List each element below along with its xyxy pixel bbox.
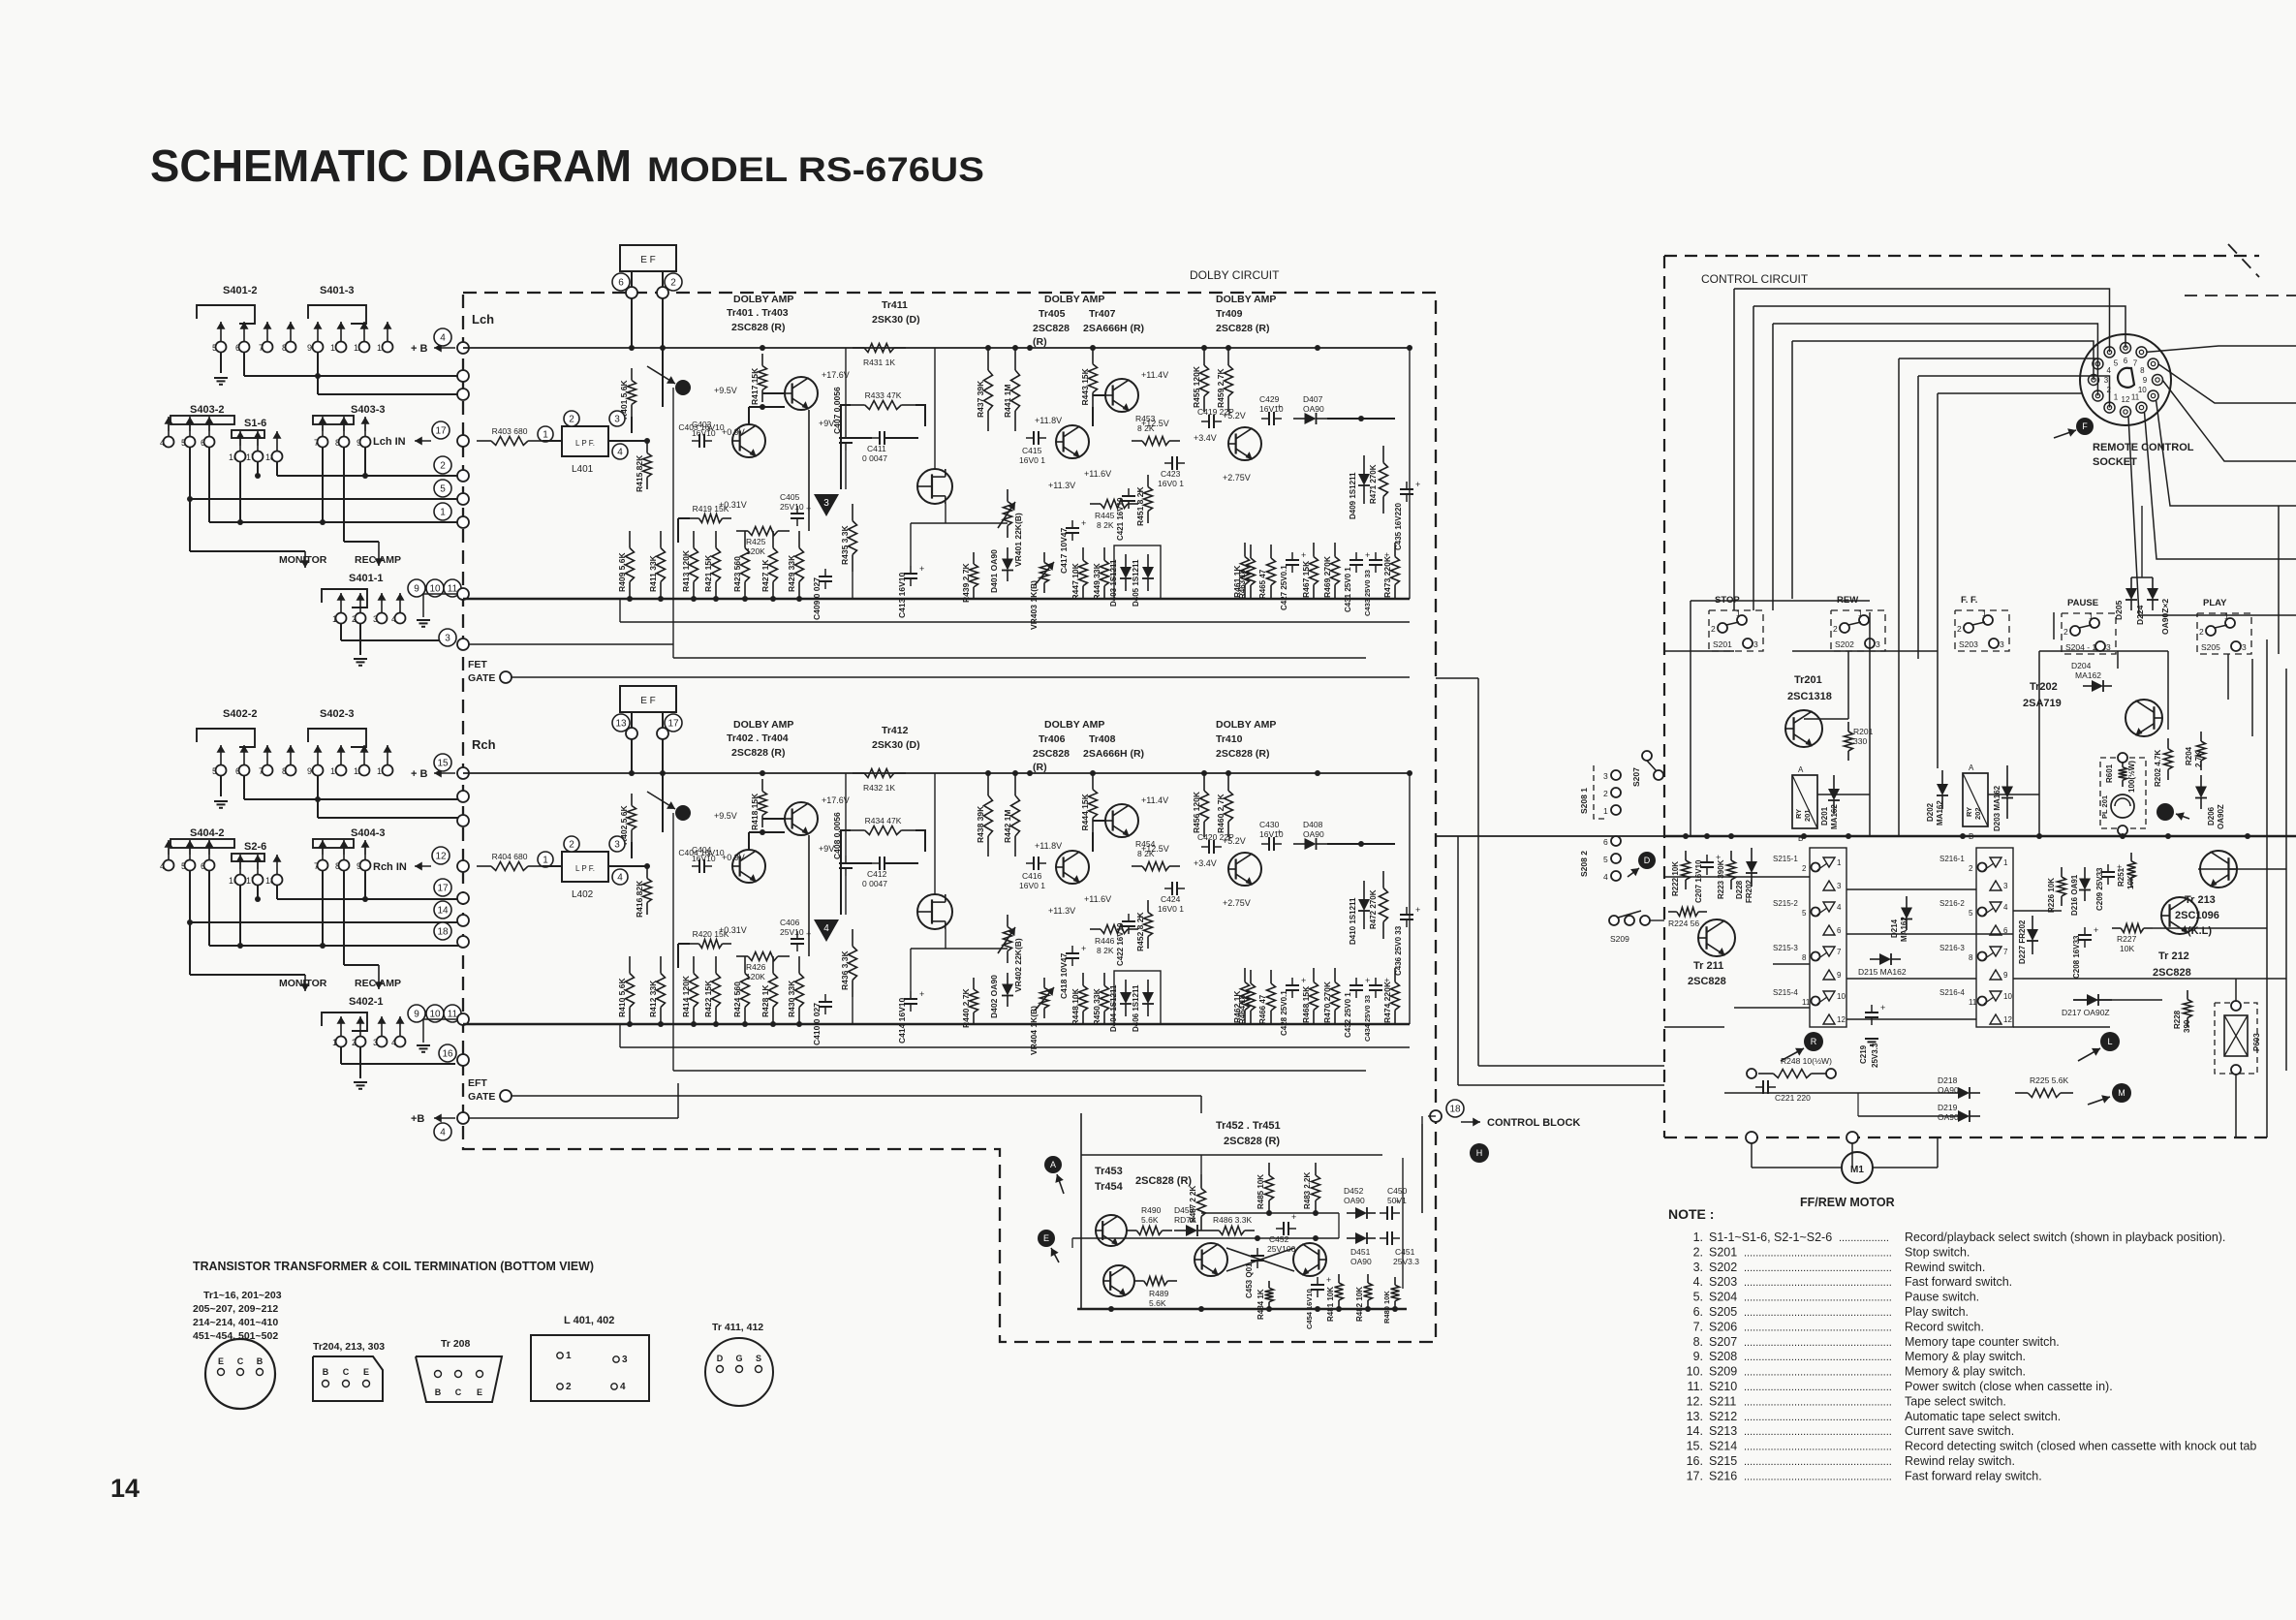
capacitor C404: [698, 859, 700, 873]
svg-text:C431 25V0 1: C431 25V0 1: [1344, 567, 1352, 612]
svg-text:D219: D219: [1938, 1103, 1958, 1112]
svg-text:+11.3V: +11.3V: [1048, 481, 1075, 490]
svg-text:8.: 8.: [1693, 1335, 1703, 1349]
legend TO package ECB: [205, 1339, 275, 1409]
wire: [934, 773, 936, 894]
svg-text:4: 4: [1603, 872, 1608, 882]
svg-text:1: 1: [2003, 858, 2008, 867]
wire: [512, 1095, 1201, 1097]
svg-text:9: 9: [414, 584, 419, 595]
transistor Tr408: [1105, 804, 1138, 837]
resistor R420: [690, 943, 698, 945]
resistor R434: [851, 829, 865, 831]
diode D205: [2130, 577, 2132, 588]
resistor R227: [2112, 927, 2121, 929]
svg-text:D: D: [717, 1354, 724, 1363]
svg-text:R419 15K: R419 15K: [693, 504, 729, 514]
wire: [543, 865, 562, 867]
ground: [220, 800, 222, 802]
diode D219: [1947, 1115, 1958, 1117]
capacitor C427: [1286, 559, 1299, 561]
svg-text:RY: RY: [1794, 809, 1803, 819]
transistor Tr403: [785, 377, 818, 410]
black node H: [1470, 1143, 1489, 1163]
svg-text:S215-3: S215-3: [1773, 944, 1798, 952]
wire: [608, 865, 647, 867]
capacitor C414: [904, 998, 917, 1000]
svg-text:S209: S209: [1610, 934, 1629, 944]
motor M1: [1746, 1132, 1757, 1143]
wire left stub: [462, 772, 464, 774]
svg-text:+: +: [1137, 486, 1142, 496]
svg-text:Lch IN: Lch IN: [373, 436, 406, 448]
wire: [359, 623, 361, 655]
svg-text:R423 560: R423 560: [732, 556, 742, 592]
capacitor C418: [1066, 952, 1079, 954]
svg-text:9: 9: [2143, 376, 2148, 385]
black node E: [1038, 1230, 1055, 1247]
ground: [359, 1081, 361, 1083]
svg-text:S401-1: S401-1: [349, 573, 383, 584]
svg-text:4: 4: [617, 448, 623, 458]
svg-text:2: 2: [1802, 864, 1807, 873]
wire: [631, 712, 633, 728]
svg-text:S210: S210: [1709, 1380, 1737, 1393]
resistor R429: [798, 531, 800, 548]
svg-text:18: 18: [1449, 1105, 1461, 1115]
svg-text:D217 OA90Z: D217 OA90Z: [2062, 1008, 2110, 1017]
wire: [631, 271, 633, 287]
svg-text:R226 10K: R226 10K: [2047, 878, 2056, 913]
svg-text:R434 47K: R434 47K: [865, 816, 902, 826]
svg-text:R202 4.7K: R202 4.7K: [2154, 750, 2162, 787]
svg-text:1.: 1.: [1693, 1231, 1703, 1244]
wire y491: [276, 462, 278, 476]
svg-text:B: B: [257, 1356, 264, 1366]
svg-text:+: +: [1081, 944, 1086, 953]
resistor R474: [1394, 968, 1396, 982]
svg-text:2SA719: 2SA719: [2023, 698, 2062, 709]
wire dashed stub: [2185, 295, 2296, 296]
node 15: [434, 754, 451, 771]
svg-text:Power switch (close when casse: Power switch (close when cassette in).: [1905, 1380, 2113, 1393]
svg-text:R469 270K: R469 270K: [1322, 555, 1332, 598]
svg-text:16V10: 16V10: [692, 854, 716, 863]
svg-text:9: 9: [307, 766, 312, 776]
svg-text:C219: C219: [1859, 1044, 1868, 1064]
svg-text:R444 15K: R444 15K: [1080, 793, 1090, 830]
resistor R440: [973, 978, 975, 989]
wire: [1724, 1092, 1947, 1094]
svg-text:+2.75V: +2.75V: [1223, 898, 1251, 908]
svg-text:DOLBY AMP: DOLBY AMP: [1216, 719, 1276, 731]
svg-text:1: 1: [1982, 608, 1987, 618]
svg-text:R489: R489: [1149, 1289, 1169, 1298]
wire: [359, 1046, 361, 1078]
resistor R490: [1127, 1230, 1136, 1231]
svg-text:R456 120K: R456 120K: [1192, 791, 1201, 833]
wire left stub: [462, 347, 464, 349]
svg-text:+: +: [1137, 912, 1142, 921]
wire: [220, 352, 222, 373]
wire: [340, 623, 342, 640]
svg-text:7: 7: [2133, 359, 2138, 368]
svg-text:DOLBY AMP: DOLBY AMP: [733, 294, 793, 305]
wire: [662, 739, 664, 832]
transistor Tr409: [1228, 427, 1261, 460]
svg-text:R439 2.7K: R439 2.7K: [961, 563, 971, 603]
svg-text:2: 2: [569, 415, 574, 425]
svg-text:S403-3: S403-3: [351, 404, 385, 416]
svg-text:C406: C406: [780, 918, 800, 927]
wire: [841, 830, 851, 915]
svg-text:R424 560: R424 560: [732, 981, 742, 1017]
resistor R486: [1209, 1230, 1219, 1231]
wire: [2131, 576, 2153, 578]
svg-text:+9.5V: +9.5V: [714, 386, 737, 395]
resistor R456: [1203, 775, 1205, 791]
svg-text:C422 16V10: C422 16V10: [1116, 922, 1125, 966]
resistor R472: [1382, 871, 1384, 888]
resistor R489: [1134, 1280, 1144, 1282]
low pass filter L402: [562, 852, 608, 882]
svg-text:17: 17: [435, 426, 447, 437]
black node M: [2112, 1083, 2131, 1103]
capacitor C432: [1350, 984, 1363, 986]
svg-text:Rewind switch.: Rewind switch.: [1905, 1261, 1985, 1274]
svg-text:3: 3: [1876, 639, 1880, 649]
wire: [910, 523, 912, 566]
svg-text:D410 1S1211: D410 1S1211: [1349, 897, 1357, 945]
svg-text:S203: S203: [1959, 639, 1978, 649]
wire: [462, 1024, 464, 1028]
svg-text:R471 270K: R471 270K: [1369, 464, 1378, 504]
svg-text:2SC828 (R): 2SC828 (R): [731, 747, 785, 759]
svg-text:+11.4V: +11.4V: [1141, 370, 1168, 380]
svg-text:25V100: 25V100: [1267, 1244, 1296, 1254]
svg-text:+3.4V: +3.4V: [1194, 858, 1217, 868]
wire: [841, 862, 872, 864]
svg-text:R404 680: R404 680: [492, 852, 528, 861]
wire y539: [208, 448, 210, 522]
svg-text:..............................: ........................................…: [1744, 1396, 1892, 1408]
resistor R464: [1250, 970, 1252, 983]
svg-text:Tr407: Tr407: [1089, 308, 1116, 320]
svg-text:..............................: ........................................…: [1744, 1277, 1892, 1289]
svg-text:F. F.: F. F.: [1961, 595, 1977, 606]
svg-text:SCHEMATIC DIAGRAM: SCHEMATIC DIAGRAM: [150, 140, 632, 191]
resistor R403: [477, 440, 491, 442]
svg-text:3: 3: [2242, 642, 2247, 652]
svg-text:MA162: MA162: [1830, 804, 1839, 829]
svg-text:S208 1: S208 1: [1579, 788, 1589, 814]
capacitor C453: [1251, 1255, 1264, 1257]
wire vertical runs in control area: [1690, 601, 1691, 836]
ground: [1871, 1038, 1873, 1040]
capacitor C209: [2101, 871, 2115, 873]
wire: [678, 517, 690, 519]
resistor R423: [744, 531, 746, 548]
svg-text:1: 1: [2089, 611, 2094, 621]
svg-text:Automatic tape select switch.: Automatic tape select switch.: [1905, 1410, 2061, 1423]
capacitor C221: [1762, 1080, 1764, 1094]
svg-text:A: A: [1798, 765, 1804, 774]
svg-text:2SC828 (R): 2SC828 (R): [1216, 323, 1269, 334]
svg-text:Tr406: Tr406: [1039, 733, 1066, 745]
resistor R202: [2167, 738, 2169, 749]
wire main bus: [1664, 835, 2296, 838]
svg-text:11: 11: [1802, 998, 1811, 1007]
svg-text:2SA666H (R): 2SA666H (R): [1083, 323, 1144, 334]
svg-text:..............................: ........................................…: [1744, 1293, 1892, 1304]
svg-text:10: 10: [429, 1010, 441, 1020]
wire: [1092, 832, 1094, 852]
svg-text:17: 17: [437, 884, 449, 894]
svg-text:S213: S213: [1709, 1424, 1737, 1438]
wire: [1080, 1113, 1082, 1309]
svg-text:E: E: [218, 1356, 224, 1366]
low pass filter L401: [562, 426, 608, 456]
svg-text:C430: C430: [1259, 820, 1280, 829]
svg-text:L401: L401: [572, 464, 594, 475]
svg-text:3: 3: [823, 498, 829, 509]
svg-text:2SC828: 2SC828: [1033, 323, 1070, 334]
svg-text:Tr402 . Tr404: Tr402 . Tr404: [727, 732, 789, 744]
svg-text:S207: S207: [1631, 767, 1641, 787]
wire: [662, 298, 664, 407]
diode D406: [1147, 980, 1149, 992]
svg-text:1: 1: [543, 856, 548, 866]
svg-text:7: 7: [1837, 948, 1842, 956]
svg-text:11: 11: [2131, 392, 2140, 401]
svg-text:0 0047: 0 0047: [862, 879, 887, 888]
svg-text:3: 3: [445, 634, 450, 644]
svg-text:8 2K: 8 2K: [1137, 423, 1155, 433]
svg-text:..............................: ........................................…: [1744, 1367, 1892, 1379]
svg-text:Record/playback select switch: Record/playback select switch (shown in …: [1905, 1231, 2225, 1244]
wire: [662, 271, 664, 287]
svg-text:R465 47: R465 47: [1258, 569, 1267, 599]
diode D201: [1833, 775, 1835, 789]
svg-text:Tr409: Tr409: [1216, 308, 1243, 320]
svg-text:TRANSISTOR TRANSFORMER & COIL: TRANSISTOR TRANSFORMER & COIL TERMINATIO…: [193, 1259, 594, 1273]
svg-text:R467 15K: R467 15K: [1301, 560, 1311, 598]
resistor R416: [646, 866, 648, 879]
svg-text:R222 10K: R222 10K: [1671, 861, 1680, 896]
svg-text:D202: D202: [1926, 802, 1935, 822]
capacitor C433: [1369, 559, 1382, 561]
svg-text:..............................: ........................................…: [1744, 1426, 1892, 1438]
pcb test point triangle: [814, 919, 839, 942]
diode D215: [1870, 958, 1879, 960]
svg-text:+: +: [919, 564, 924, 574]
diode D409: [1363, 455, 1365, 474]
svg-text:1: 1: [566, 1351, 572, 1361]
svg-text:VR402 22K(B): VR402 22K(B): [1013, 938, 1023, 992]
svg-text:+: +: [1880, 1003, 1885, 1012]
wire socket right: [2147, 346, 2296, 352]
black node A: [675, 380, 691, 395]
svg-text:R411 33K: R411 33K: [648, 554, 658, 592]
svg-text:S215: S215: [1709, 1454, 1737, 1468]
ground stub: [423, 1018, 457, 1020]
svg-text:..............................: ........................................…: [1744, 1442, 1892, 1453]
svg-text:D228: D228: [1735, 880, 1744, 899]
wire y515: [189, 871, 191, 922]
svg-text:16V0 1: 16V0 1: [1019, 881, 1045, 890]
resistor R451: [1147, 475, 1149, 487]
svg-text:S1-6: S1-6: [244, 418, 266, 429]
svg-text:+B: +B: [411, 1113, 424, 1125]
wire: [608, 440, 647, 442]
ground: [359, 658, 361, 660]
wire: [1753, 306, 2125, 348]
svg-text:S1-1~S1-6, S2-1~S2-6: S1-1~S1-6, S2-1~S2-6: [1709, 1231, 1832, 1244]
svg-text:R453: R453: [1135, 414, 1156, 423]
svg-text:R484 1K: R484 1K: [1257, 1289, 1265, 1320]
svg-text:6: 6: [2124, 357, 2128, 365]
svg-text:Stop switch.: Stop switch.: [1905, 1245, 1970, 1259]
svg-text:3: 3: [1837, 882, 1842, 890]
svg-text:Tr 208: Tr 208: [441, 1338, 471, 1350]
svg-text:12: 12: [2122, 395, 2130, 404]
node: [457, 370, 469, 382]
svg-text:Rch: Rch: [472, 737, 496, 752]
wire: [1899, 358, 2097, 396]
svg-text:..............................: ........................................…: [1744, 1307, 1892, 1319]
svg-text:3: 3: [614, 840, 620, 851]
svg-text:S216-1: S216-1: [1939, 855, 1965, 863]
svg-text:C: C: [455, 1387, 462, 1397]
resistor R417: [761, 354, 763, 366]
svg-text:L P F.: L P F.: [575, 864, 595, 873]
svg-text:15.: 15.: [1687, 1440, 1703, 1453]
svg-text:R483 2.2K: R483 2.2K: [1303, 1172, 1312, 1209]
ground: [422, 619, 424, 621]
diode D227: [2032, 916, 2033, 929]
resistor R485: [1268, 1163, 1270, 1175]
resistor R453: [1132, 440, 1142, 442]
diode D453: [1174, 1230, 1186, 1231]
svg-text:R431 1K: R431 1K: [863, 358, 895, 367]
svg-text:2: 2: [569, 840, 574, 851]
resistor R436: [852, 929, 853, 947]
svg-text:17: 17: [667, 719, 679, 730]
node 9 10 11: [408, 579, 425, 597]
wire y539: [208, 871, 210, 946]
resistor R428: [772, 956, 774, 974]
svg-text:214~214, 401~410: 214~214, 401~410: [193, 1317, 278, 1328]
svg-text:S402-2: S402-2: [223, 708, 257, 720]
diode D224: [2152, 577, 2154, 588]
svg-text:+: +: [2094, 925, 2098, 935]
svg-text:C434 25V0 33: C434 25V0 33: [1363, 995, 1372, 1042]
resistor R421: [715, 531, 717, 548]
transistor Tr410: [1228, 853, 1261, 886]
diode D451: [1347, 1237, 1355, 1239]
svg-text:2SC828 (R): 2SC828 (R): [1224, 1136, 1280, 1147]
node 3 FET GATE: [439, 629, 456, 646]
svg-text:Tr204, 213, 303: Tr204, 213, 303: [313, 1341, 385, 1353]
transistor Tr454: [1103, 1265, 1134, 1296]
socket keyhole: [2118, 368, 2134, 388]
svg-text:OA90: OA90: [1344, 1196, 1365, 1205]
svg-text:C432 25V0 1: C432 25V0 1: [1344, 992, 1352, 1038]
node: [434, 922, 451, 940]
svg-text:Tr 211: Tr 211: [1693, 960, 1723, 972]
svg-text:5.6K: 5.6K: [1141, 1215, 1159, 1225]
capacitor C424: [1171, 882, 1173, 895]
resistor R468: [1313, 968, 1315, 982]
capacitor C408: [839, 862, 853, 864]
wire: [1734, 289, 2110, 352]
resistor R467: [1313, 543, 1315, 557]
resistor R480: [1394, 1277, 1396, 1285]
resistor R484: [1268, 1281, 1270, 1288]
wire rec amp feed: [343, 448, 345, 542]
svg-text:R248 10(½W): R248 10(½W): [1781, 1056, 1832, 1066]
wire monitor feed: [189, 499, 191, 551]
ground: [422, 1044, 424, 1046]
wire: [672, 813, 674, 1071]
svg-text:C415: C415: [1022, 446, 1042, 455]
node pin 17: [665, 714, 682, 732]
wire y491: [276, 886, 278, 899]
svg-text:10.: 10.: [1687, 1365, 1703, 1379]
svg-text:S216-3: S216-3: [1939, 944, 1965, 952]
wire: [748, 832, 750, 850]
svg-text:4: 4: [2003, 903, 2008, 912]
diode D217: [2073, 999, 2087, 1001]
svg-text:Tr 411, 412: Tr 411, 412: [712, 1322, 763, 1333]
wire: [672, 388, 674, 658]
svg-text:16.: 16.: [1687, 1454, 1703, 1468]
svg-text:50V1: 50V1: [1387, 1196, 1407, 1205]
svg-text:DOLBY CIRCUIT: DOLBY CIRCUIT: [1190, 268, 1280, 282]
svg-text:GATE: GATE: [468, 1091, 495, 1103]
svg-text:C424: C424: [1161, 894, 1181, 904]
capacitor C403: [698, 434, 700, 448]
svg-text:D451: D451: [1350, 1247, 1371, 1257]
svg-text:C450: C450: [1387, 1186, 1408, 1196]
resistor R481: [1338, 1274, 1340, 1283]
svg-text:6: 6: [1603, 837, 1608, 847]
lamp PL201: [2100, 758, 2146, 828]
svg-text:Memory & play switch.: Memory & play switch.: [1905, 1365, 2026, 1379]
svg-text:R486 3.3K: R486 3.3K: [1213, 1215, 1252, 1225]
svg-text:S401-3: S401-3: [320, 285, 354, 296]
wire: [1421, 1124, 1423, 1213]
resistor R425: [736, 530, 748, 532]
resistor R446: [1090, 928, 1101, 930]
resistor R413: [693, 531, 695, 548]
capacitor C451: [1386, 1231, 1388, 1245]
svg-text:DOLBY AMP: DOLBY AMP: [1044, 719, 1104, 731]
svg-text:9: 9: [2003, 971, 2008, 980]
svg-text:2: 2: [1603, 789, 1608, 798]
wire: [619, 1024, 621, 1047]
svg-text:D227 FR202: D227 FR202: [2018, 919, 2027, 964]
connector P603: [2215, 1003, 2257, 1074]
wire bottom bus: [463, 1023, 1410, 1026]
svg-text:9: 9: [414, 1010, 419, 1020]
svg-text:D452: D452: [1344, 1186, 1364, 1196]
wire box: [1114, 971, 1161, 1024]
svg-text:8 2K: 8 2K: [1137, 849, 1155, 858]
resistor R460: [1227, 775, 1229, 791]
svg-text:R447 10K: R447 10K: [1070, 562, 1080, 600]
resistor R449: [1103, 547, 1105, 560]
